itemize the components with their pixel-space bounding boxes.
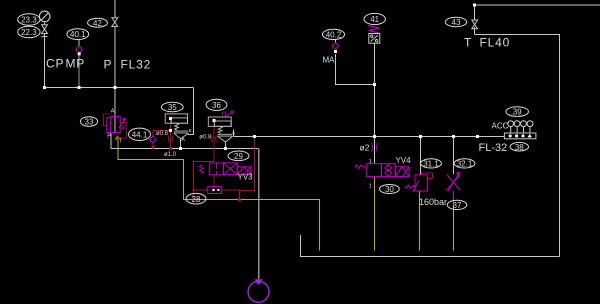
shutoff valve 42 symbol — [112, 18, 118, 27]
svg-text:1: 1 — [369, 184, 372, 190]
wire CP vertical — [44, 34, 46, 88]
wire MP vertical — [78, 54, 80, 88]
wire gauge stem — [44, 22, 46, 25]
accumulator bank circles — [508, 121, 533, 133]
tank return circle — [248, 279, 269, 302]
label bubble 35 — [161, 102, 183, 111]
node 31.1 feed on bus2 — [419, 135, 422, 138]
wire 41 branch vertical — [374, 44, 376, 164]
wire L-connector to valve 35 right port — [188, 88, 194, 135]
label bubble 40.1 — [67, 29, 89, 40]
svg-text:30: 30 — [385, 185, 394, 194]
wire top right horizontal — [475, 4, 600, 6]
label bubble 32.1 — [454, 159, 475, 168]
svg-text:36: 36 — [212, 101, 221, 110]
orifice symbol on 41 branch — [372, 143, 378, 152]
test point diamond 44.1 — [150, 136, 157, 143]
svg-text:YV3: YV3 — [238, 173, 254, 182]
wire 40.2 tick — [335, 40, 337, 44]
label bubble 31.1 — [421, 159, 442, 168]
label bubble 41 — [364, 13, 385, 24]
label bubble 30 — [380, 185, 400, 194]
svg-text:FL40: FL40 — [480, 36, 511, 50]
wire red pilot through valve 36 to YV3 — [213, 121, 215, 163]
svg-text:22.3: 22.3 — [21, 28, 37, 37]
wire maroon valve 33 right loop — [119, 123, 127, 139]
wire CP tick — [42, 36, 48, 38]
node MA joins 41 branch — [373, 83, 376, 86]
svg-text:31.1: 31.1 — [423, 160, 439, 169]
wire red pilot from bus2 — [240, 137, 255, 191]
wire valve 36 right port stub — [233, 130, 235, 137]
node below 40.1 diamond — [78, 52, 81, 55]
pressure gauge — [39, 11, 50, 22]
test point diamond 40.2 — [332, 43, 339, 50]
label bubble 23.3 — [18, 14, 40, 25]
svg-text:41: 41 — [370, 15, 379, 24]
wire vertical to tank circle — [258, 149, 260, 280]
node valve 35 pilot top — [169, 117, 172, 120]
node top right line — [473, 4, 476, 7]
svg-text:P: P — [107, 134, 111, 140]
label bubble 44.1 — [129, 128, 151, 140]
svg-text:29: 29 — [234, 152, 243, 161]
svg-text:1: 1 — [369, 159, 372, 165]
wire yellow drain from YV4 — [374, 177, 376, 251]
svg-text:23.3: 23.3 — [21, 16, 37, 25]
tank left wall and bottom — [301, 235, 560, 257]
manifold node dots — [509, 134, 532, 138]
label bubble 36 — [206, 99, 227, 110]
svg-text:37: 37 — [453, 201, 462, 210]
node below 40.2 diamond — [334, 50, 337, 53]
svg-text:ø0.8: ø0.8 — [156, 131, 169, 137]
wire 31.1 feed vertical — [420, 137, 422, 175]
arrowhead red pilot into line A — [151, 146, 156, 150]
logic cartridge valve 36 — [208, 117, 232, 142]
label bubble 33 — [80, 117, 97, 127]
svg-text:40.2: 40.2 — [326, 31, 342, 40]
svg-text:A: A — [181, 137, 185, 143]
label bubble 28 — [186, 193, 206, 204]
node test point on bus2 — [476, 135, 479, 138]
svg-text:MA: MA — [323, 56, 336, 65]
wire MA vertical and jog — [336, 54, 375, 85]
wire bus2 horizontal — [234, 136, 505, 138]
svg-text:35: 35 — [168, 103, 177, 112]
svg-text:160bar: 160bar — [419, 197, 447, 207]
label bubble 29 — [228, 151, 249, 161]
wire 40.1 tick — [78, 40, 80, 47]
svg-text:A: A — [111, 109, 115, 115]
svg-text:42: 42 — [93, 19, 102, 28]
svg-text:E: E — [232, 131, 235, 136]
node red pilot on bus2 — [253, 135, 256, 138]
svg-text:32.1: 32.1 — [457, 160, 473, 169]
throttle valve 32.1 — [447, 137, 461, 206]
svg-text:ACC: ACC — [492, 122, 509, 131]
orifice symbol on valve 36 pilot — [211, 136, 216, 143]
orifice symbol on valve 35 pilot — [168, 136, 173, 143]
test point diamond 40.1 — [76, 46, 83, 53]
valve 36 proportional arrow — [223, 111, 234, 116]
accumulator manifold — [504, 133, 536, 139]
label bubble 42 — [88, 18, 108, 27]
label bubble 43 — [445, 17, 466, 26]
node 32.1 feed on bus2 — [452, 135, 455, 138]
breather 41 spring zigzag — [368, 26, 380, 34]
wire maroon pilot to 44.1 — [153, 131, 170, 138]
orange arrowhead into valve 33 bottom — [115, 136, 119, 140]
svg-text:MP: MP — [66, 57, 86, 71]
node valve 36 drain on line A — [224, 147, 227, 150]
logic cartridge valve 35 — [165, 114, 188, 139]
svg-text:FL-32: FL-32 — [479, 142, 508, 154]
wire line A horizontal — [111, 148, 259, 150]
svg-text:39: 39 — [513, 108, 522, 117]
wire red 31.1 pilot loop — [422, 173, 433, 179]
node MP bus — [78, 86, 81, 89]
node valve 35 drain on line A — [179, 147, 182, 150]
svg-text:44.1: 44.1 — [132, 130, 148, 139]
wire maroon 44.1 to line A stub — [152, 142, 154, 146]
wire bus CP-MP-P horizontal — [45, 87, 194, 89]
wire 32.1 feed vertical — [453, 137, 455, 175]
shutoff valve 43 symbol — [472, 20, 478, 29]
svg-text:P: P — [104, 58, 113, 72]
wire valve 35 bottom stub — [180, 139, 182, 149]
wire valve 36 bottom stub — [225, 142, 227, 149]
svg-text:ø0.8: ø0.8 — [199, 135, 212, 141]
pressure reducing valve 33 — [107, 117, 126, 133]
svg-text:FL32: FL32 — [121, 58, 152, 72]
node valve 36 pilot top — [213, 119, 216, 122]
shuttle valve below YV3 — [208, 187, 222, 194]
wire yellow drain from valve 33 — [118, 136, 320, 251]
wire red pilot through valve 35 — [170, 119, 172, 149]
label bubble 22.3 — [18, 26, 40, 37]
svg-text:38: 38 — [515, 143, 524, 152]
svg-text:ø1.0: ø1.0 — [164, 152, 177, 158]
label bubble 39 — [506, 107, 529, 117]
node 41 branch on bus2 — [373, 135, 376, 138]
breather 41 box — [369, 34, 380, 44]
label bubble 37 — [447, 200, 467, 209]
label bubble 40.2 — [322, 29, 344, 39]
svg-text:28: 28 — [192, 195, 201, 204]
wire maroon valve 33 left loop — [104, 114, 111, 126]
svg-text:T: T — [464, 36, 472, 50]
svg-text:E: E — [189, 128, 192, 133]
wire red YV3 to shuttle — [213, 175, 215, 187]
wire 43 valve vertical — [474, 5, 476, 35]
svg-text:CP: CP — [46, 57, 64, 71]
svg-text:YV4: YV4 — [396, 156, 412, 165]
svg-text:43: 43 — [452, 18, 461, 27]
wire red YV3 left loop — [194, 162, 215, 200]
wire yellow drain from 31.1 — [419, 191, 421, 251]
wire red shuttle output — [222, 190, 240, 200]
svg-text:33: 33 — [85, 118, 94, 127]
svg-text:ø2: ø2 — [360, 143, 370, 153]
relief valve 31.1 — [405, 175, 428, 192]
label bubble 38 — [510, 142, 528, 151]
wire return to tank right wall — [475, 35, 560, 257]
shutoff valve on CP line — [42, 25, 48, 34]
svg-text:40.1: 40.1 — [70, 30, 86, 39]
wire valve 33 drain stub — [110, 133, 112, 149]
node CP bus — [43, 86, 46, 89]
directional valve YV4 — [355, 164, 409, 177]
red junction dot on line A — [169, 147, 172, 150]
node P bus — [114, 86, 117, 89]
red junction dot on yellow line — [238, 198, 241, 201]
directional valve YV3 — [200, 163, 252, 175]
wire yellow drain from 32.1 — [453, 205, 455, 251]
node valve 35 pilot mid — [169, 129, 172, 132]
wire P vertical — [114, 0, 116, 132]
